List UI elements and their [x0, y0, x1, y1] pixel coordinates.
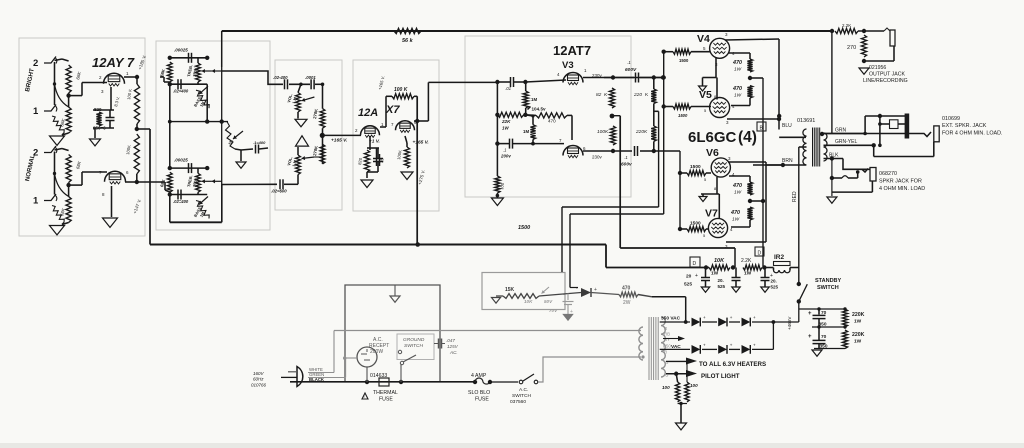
svg-text:220K: 220K	[852, 312, 865, 318]
svg-text:100: 100	[690, 383, 698, 388]
svg-text:20.: 20.	[771, 279, 777, 284]
svg-text:1500: 1500	[518, 225, 530, 231]
svg-text:20.: 20.	[718, 278, 724, 283]
svg-text:.1: .1	[624, 155, 628, 160]
svg-text:600V: 600V	[625, 67, 637, 73]
svg-text:220K: 220K	[635, 129, 648, 135]
svg-text:V7: V7	[705, 208, 718, 220]
svg-text:1500: 1500	[678, 113, 688, 118]
svg-text:1W: 1W	[854, 319, 862, 325]
svg-text:470: 470	[548, 119, 556, 124]
svg-text:1: 1	[33, 196, 39, 207]
svg-text:010699: 010699	[942, 116, 960, 122]
svg-text:12AT7: 12AT7	[553, 43, 591, 58]
svg-text:TO ALL 6.3V HEATERS: TO ALL 6.3V HEATERS	[699, 361, 766, 368]
svg-text:(4): (4)	[738, 129, 757, 146]
svg-text:068270: 068270	[879, 171, 897, 177]
svg-text:+: +	[730, 342, 733, 347]
svg-text:22K: 22K	[501, 119, 511, 124]
svg-text:820: 820	[94, 107, 102, 112]
svg-text:50V: 50V	[544, 299, 553, 304]
svg-text:1M: 1M	[523, 129, 529, 134]
svg-text:GROUND: GROUND	[403, 337, 425, 343]
svg-text:1W: 1W	[744, 271, 752, 277]
svg-text:D: D	[693, 261, 697, 267]
svg-text:1: 1	[33, 106, 39, 117]
svg-text:4 OHM MIN. LOAD: 4 OHM MIN. LOAD	[879, 186, 925, 192]
svg-text:525: 525	[718, 284, 726, 289]
svg-text:10K: 10K	[714, 258, 725, 264]
svg-text:GRN-YEL: GRN-YEL	[835, 139, 857, 145]
svg-text:RY: RY	[664, 337, 670, 342]
svg-text:100 K: 100 K	[394, 87, 408, 93]
svg-text:70V: 70V	[549, 308, 558, 313]
svg-text:1500: 1500	[690, 221, 701, 227]
svg-text:230v: 230v	[592, 155, 603, 160]
svg-text:R: R	[664, 326, 667, 331]
svg-text:100K: 100K	[597, 129, 609, 135]
svg-text:.02-400: .02-400	[273, 75, 288, 80]
svg-text:RED: RED	[792, 191, 798, 202]
svg-text:021956: 021956	[869, 65, 886, 71]
svg-text:350 VAC: 350 VAC	[661, 316, 681, 322]
svg-text:220: 220	[633, 92, 642, 98]
svg-text:70: 70	[821, 334, 827, 340]
svg-text:A.C.: A.C.	[519, 387, 528, 393]
svg-text:100: 100	[662, 385, 670, 390]
svg-text:BRN: BRN	[782, 158, 793, 164]
svg-text:1500: 1500	[690, 164, 701, 170]
svg-text:470: 470	[732, 60, 742, 66]
svg-text:.01: .01	[505, 86, 512, 91]
svg-text:+165 V.: +165 V.	[413, 140, 429, 146]
svg-text:1W: 1W	[732, 217, 740, 223]
svg-text:2.2K: 2.2K	[842, 23, 851, 28]
svg-text:470: 470	[732, 183, 742, 189]
svg-text:V6: V6	[706, 147, 719, 159]
svg-text:+: +	[753, 342, 756, 347]
svg-text:+: +	[753, 315, 756, 320]
svg-text:6L6GC: 6L6GC	[688, 129, 737, 146]
svg-text:1W: 1W	[734, 67, 742, 73]
svg-text:+: +	[730, 315, 733, 320]
svg-text:STANDBY: STANDBY	[815, 278, 842, 284]
svg-text:FOR 4 OHM MIN. LOAD.: FOR 4 OHM MIN. LOAD.	[942, 131, 1003, 137]
svg-text:.1=400: .1=400	[253, 140, 266, 145]
svg-text:+: +	[703, 342, 706, 347]
svg-text:.02=400: .02=400	[173, 89, 189, 94]
svg-text:12AY 7: 12AY 7	[92, 55, 135, 70]
svg-text:OUTPUT JACK: OUTPUT JACK	[869, 72, 905, 78]
svg-text:70: 70	[821, 310, 827, 316]
svg-text:.047: .047	[446, 338, 455, 343]
svg-text:125V: 125V	[447, 344, 459, 349]
svg-text:PILOT LIGHT: PILOT LIGHT	[701, 373, 740, 380]
svg-text:+: +	[808, 311, 812, 317]
svg-text:20: 20	[686, 274, 692, 280]
svg-text:525: 525	[684, 282, 692, 288]
svg-text:60Hz: 60Hz	[253, 377, 264, 382]
svg-text:+: +	[703, 315, 706, 320]
svg-text:EXT. SPKR. JACK: EXT. SPKR. JACK	[942, 123, 987, 129]
svg-text:BLU: BLU	[782, 123, 792, 129]
svg-text:10K: 10K	[524, 299, 533, 304]
svg-text:V4: V4	[697, 33, 710, 45]
svg-text:.00025: .00025	[174, 158, 188, 163]
svg-text:THERMAL: THERMAL	[373, 390, 398, 396]
svg-text:12A: 12A	[358, 107, 378, 119]
svg-text:!: !	[364, 394, 365, 399]
svg-text:SPKR JACK FOR: SPKR JACK FOR	[879, 179, 922, 185]
svg-text:+465V: +465V	[787, 316, 792, 330]
svg-text:525: 525	[771, 285, 779, 290]
svg-text:1500: 1500	[679, 58, 689, 63]
svg-text:1M: 1M	[531, 97, 537, 102]
svg-text:82: 82	[596, 92, 602, 98]
svg-text:.1: .1	[627, 60, 631, 65]
svg-text:2W: 2W	[623, 300, 631, 306]
svg-text:SLO BLO: SLO BLO	[468, 390, 490, 396]
svg-text:470: 470	[730, 210, 740, 216]
svg-text:470: 470	[732, 86, 742, 92]
svg-text:D: D	[758, 251, 762, 257]
svg-text:IR2: IR2	[774, 254, 785, 261]
svg-text:270: 270	[847, 45, 856, 51]
svg-text:+165 V.: +165 V.	[331, 138, 347, 144]
svg-text:V5: V5	[699, 89, 712, 101]
svg-text:15K: 15K	[505, 287, 515, 293]
svg-text:1W: 1W	[711, 271, 719, 277]
svg-text:.1: .1	[503, 148, 507, 153]
svg-text:56 k: 56 k	[402, 38, 414, 44]
svg-text:600v: 600v	[621, 162, 632, 168]
svg-text:.02=600: .02=600	[271, 189, 287, 194]
svg-text:104.5v: 104.5v	[532, 107, 546, 112]
svg-text:2.2K: 2.2K	[741, 258, 752, 264]
svg-text:+: +	[808, 334, 812, 340]
svg-text:.0001: .0001	[305, 75, 316, 80]
svg-text:037560: 037560	[510, 399, 526, 405]
svg-text:160V: 160V	[253, 371, 265, 376]
svg-text:.02=400: .02=400	[173, 199, 189, 204]
svg-text:+: +	[695, 273, 698, 279]
svg-text:X7: X7	[385, 104, 400, 116]
svg-text:V3: V3	[562, 60, 574, 71]
svg-text:200v: 200v	[500, 154, 511, 159]
svg-text:R: R	[664, 350, 667, 355]
svg-text:1W: 1W	[734, 190, 742, 196]
svg-text:220K: 220K	[852, 332, 865, 338]
svg-text:RB: RB	[664, 332, 670, 337]
svg-text:SWITCH: SWITCH	[817, 285, 839, 291]
svg-text:LINE/RECORDING: LINE/RECORDING	[863, 78, 908, 84]
svg-text:GRN: GRN	[835, 128, 847, 134]
svg-text:1W: 1W	[854, 339, 862, 345]
svg-text:1W: 1W	[502, 126, 509, 131]
svg-text:AC.: AC.	[449, 350, 458, 355]
svg-text:FUSE: FUSE	[379, 397, 393, 403]
svg-text:.00025: .00025	[174, 47, 188, 52]
svg-text:013691: 013691	[797, 118, 815, 124]
svg-text:010766: 010766	[251, 383, 267, 388]
svg-text:2: 2	[33, 58, 38, 69]
svg-text:014633: 014633	[370, 373, 387, 379]
svg-text:470: 470	[622, 286, 631, 292]
svg-text:SWITCH: SWITCH	[512, 393, 531, 399]
svg-text:FUSE: FUSE	[475, 397, 489, 403]
svg-text:2: 2	[33, 148, 38, 159]
svg-text:SWITCH: SWITCH	[404, 343, 423, 349]
svg-text:1W: 1W	[734, 93, 742, 99]
